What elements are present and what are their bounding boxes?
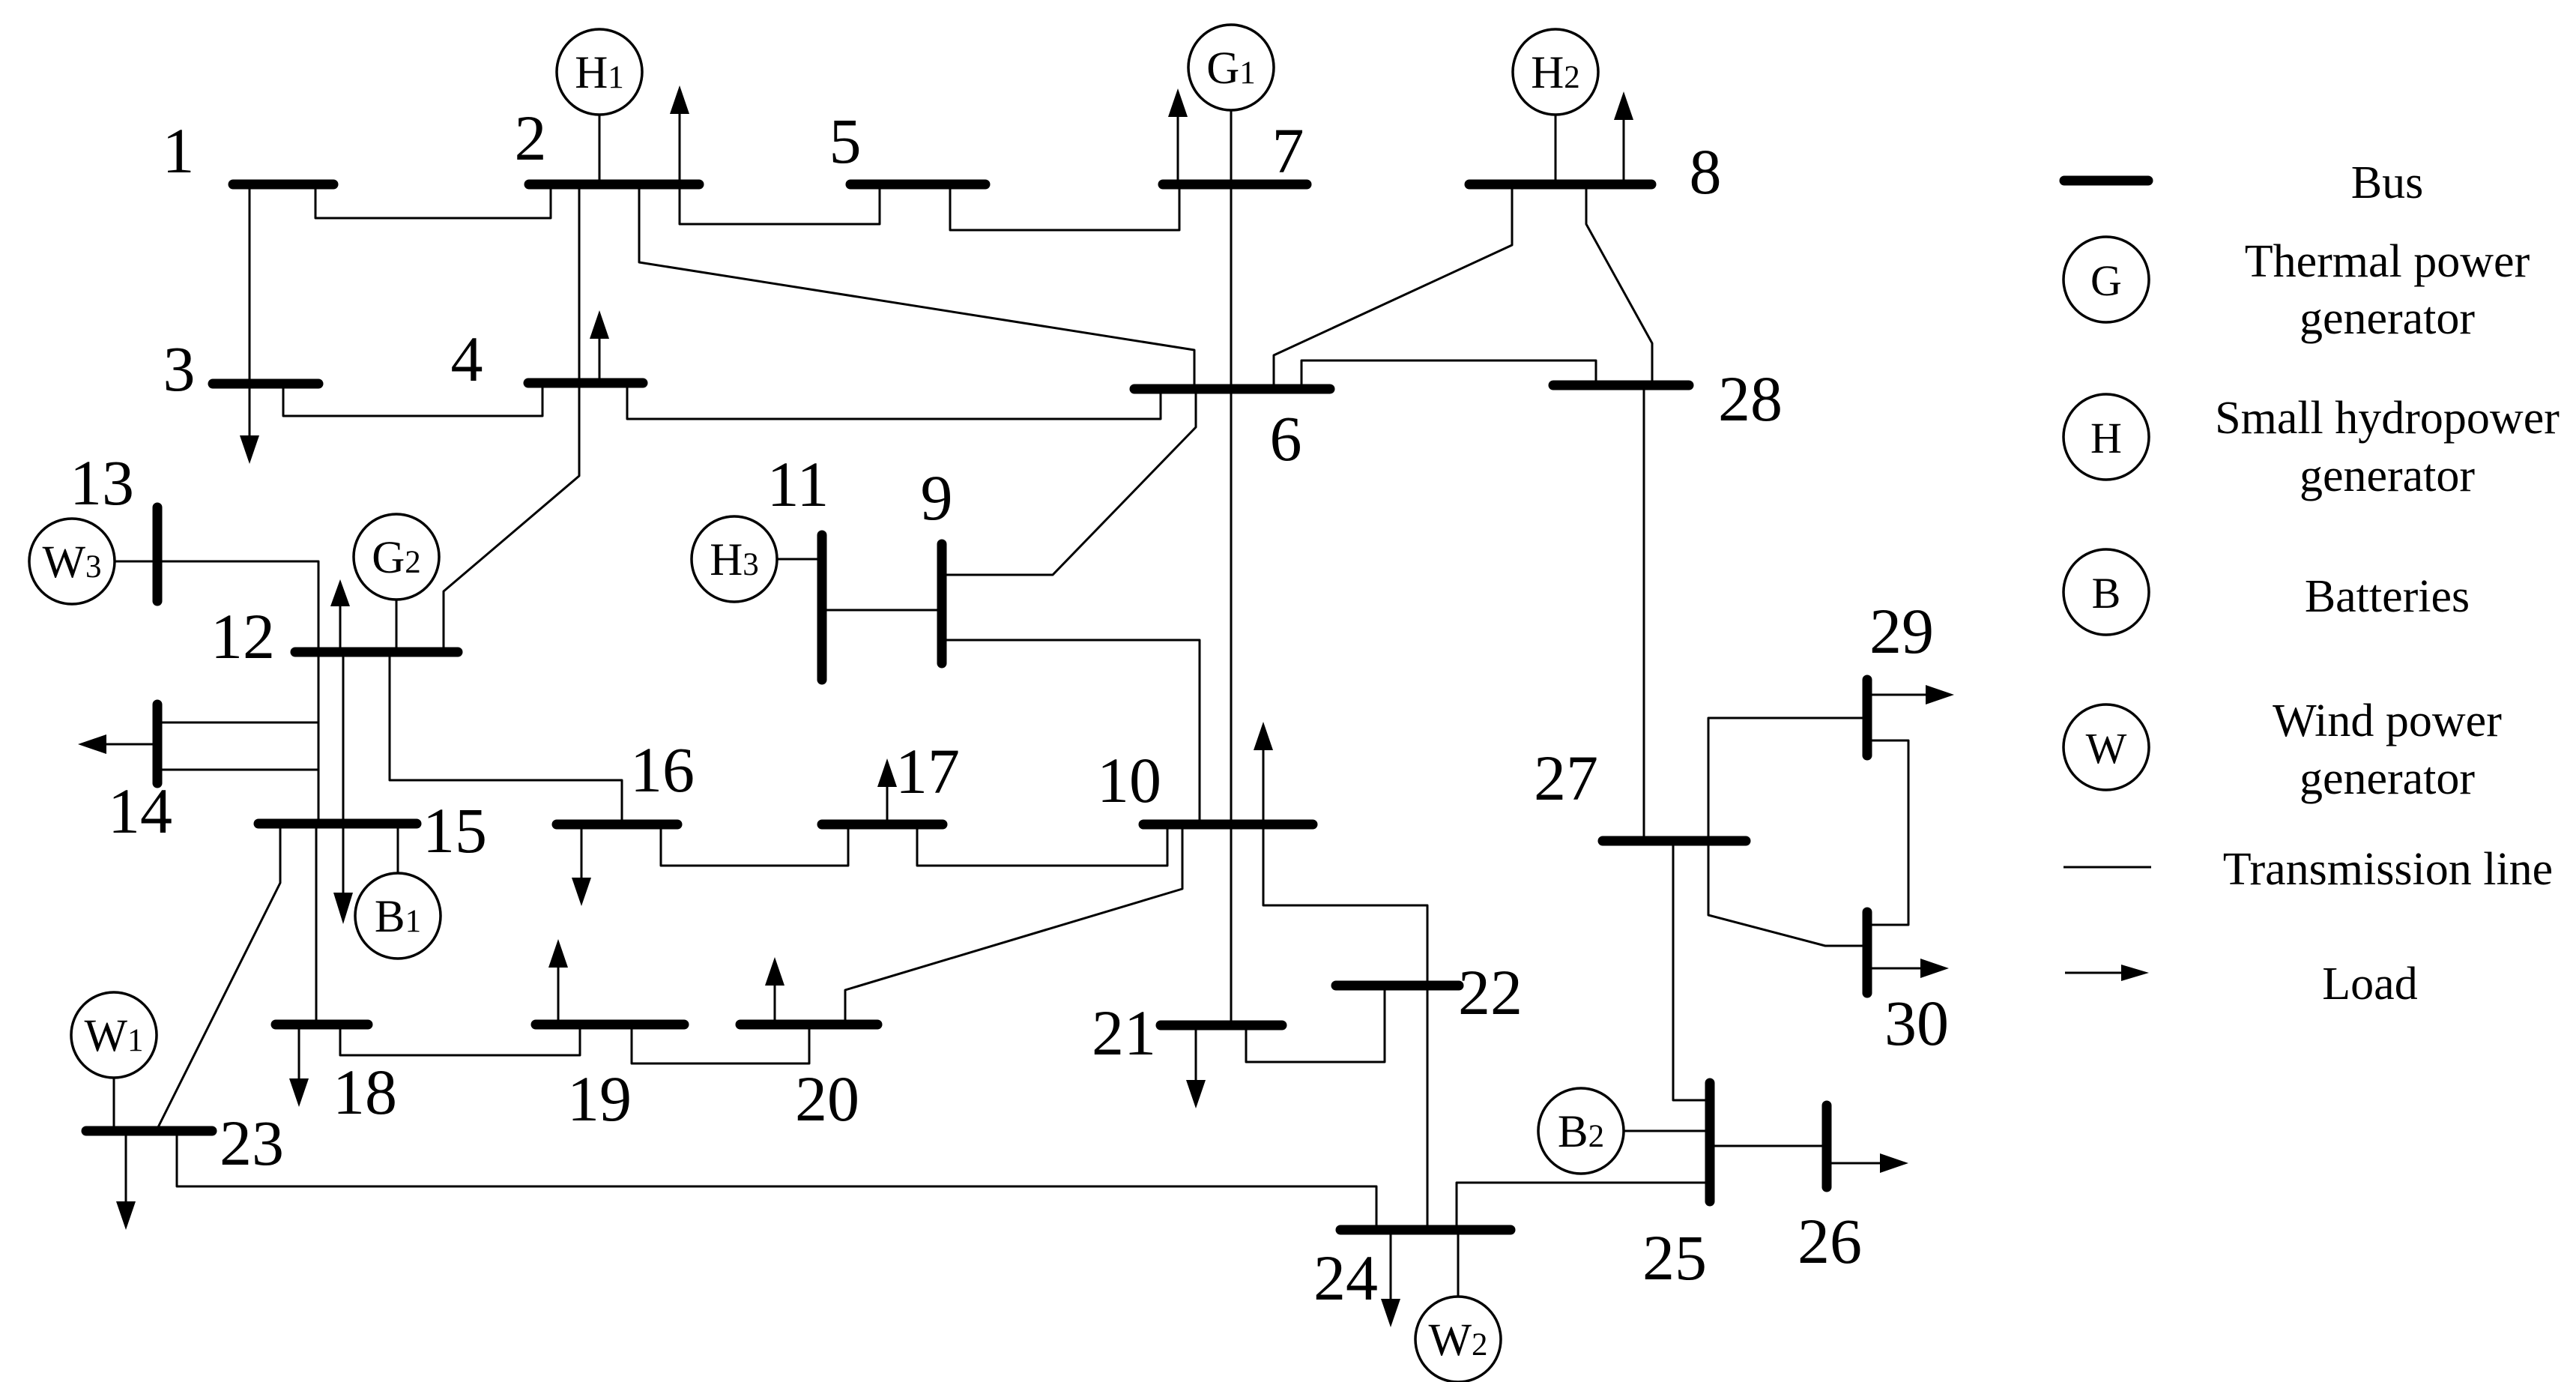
svg-text:Bus: Bus <box>2351 157 2423 208</box>
bus 30 <box>1863 912 1872 993</box>
load arrow at bus 21 (down) <box>1186 1028 1206 1108</box>
svg-text:4: 4 <box>451 323 483 395</box>
svg-text:15: 15 <box>423 794 487 866</box>
wire G2-bus12 <box>396 600 398 649</box>
bus 23 <box>86 1126 212 1136</box>
svg-text:7: 7 <box>1272 115 1304 187</box>
svg-text:B: B <box>2092 569 2121 618</box>
wire bus6-bus9 <box>942 392 1196 575</box>
wind power generator W3 at bus 13 <box>29 519 115 604</box>
wire bus4-bus12 <box>444 386 579 649</box>
wind power generator W1 at bus 23 <box>71 992 157 1078</box>
svg-text:8: 8 <box>1690 136 1722 208</box>
load arrow at bus 7 (up) <box>1168 88 1188 181</box>
bus 29 <box>1863 680 1872 755</box>
bus 5 <box>850 180 985 190</box>
svg-text:10: 10 <box>1097 744 1161 816</box>
svg-text:11: 11 <box>767 448 829 520</box>
legend batteries symbol B <box>2063 549 2149 635</box>
wire bus5-bus7 <box>950 189 1179 230</box>
svg-text:20: 20 <box>795 1063 859 1135</box>
load arrow at bus 18 (down) <box>289 1028 309 1107</box>
legend wind power symbol W <box>2063 704 2149 790</box>
load arrow at bus 12 (up) <box>330 579 350 649</box>
legend label Wind power generator <box>2273 695 2502 804</box>
wire bus19-bus20 <box>632 1028 809 1063</box>
svg-text:23: 23 <box>220 1107 284 1179</box>
svg-text:generator: generator <box>2300 753 2475 804</box>
svg-text:17: 17 <box>895 735 960 807</box>
wire bus29-bus30 <box>1871 740 1908 925</box>
bus 26 <box>1822 1105 1832 1187</box>
svg-text:14: 14 <box>108 775 172 847</box>
bus 19 <box>536 1020 684 1030</box>
svg-text:Small hydropower: Small hydropower <box>2215 393 2560 444</box>
bus 15 <box>258 819 417 829</box>
svg-text:6: 6 <box>1270 402 1302 474</box>
svg-text:19: 19 <box>567 1063 632 1135</box>
wire bus27-bus30 <box>1708 844 1863 946</box>
load arrow at bus 20 (up) <box>765 957 784 1022</box>
svg-text:Batteries: Batteries <box>2305 571 2470 622</box>
wire bus27-bus25 <box>1673 844 1706 1100</box>
bus 3 <box>213 379 318 389</box>
svg-text:12: 12 <box>211 600 275 672</box>
wire B2-bus25 <box>1624 1130 1706 1132</box>
small hydropower generator H1 at bus 2 <box>557 29 642 115</box>
load arrow at bus 19 (up) <box>548 939 568 1022</box>
svg-text:Load: Load <box>2322 959 2417 1010</box>
load arrow at bus 4 (up) <box>590 310 609 380</box>
wire bus2-bus5 <box>680 189 880 224</box>
svg-text:28: 28 <box>1718 363 1783 435</box>
wire H3-bus11 <box>777 558 819 561</box>
bus 13 <box>153 507 163 601</box>
svg-text:2: 2 <box>515 102 547 174</box>
svg-text:1: 1 <box>163 115 195 187</box>
svg-text:5: 5 <box>829 105 862 177</box>
legend bus symbol <box>2064 176 2148 186</box>
battery B2 at bus 25 <box>1538 1088 1624 1174</box>
svg-text:25: 25 <box>1642 1222 1707 1294</box>
load arrow at bus 2 (up) <box>670 85 689 181</box>
wire junction 12-14-15 vertical <box>318 722 320 770</box>
wire bus15-bus23 <box>158 827 280 1127</box>
wire bus1-bus2 <box>315 189 551 218</box>
wire bus18-bus19 <box>340 1028 580 1055</box>
bus 7 <box>1163 180 1307 190</box>
bus 16 <box>557 820 677 830</box>
wire bus10-bus22-bus24 <box>1263 827 1427 1225</box>
wire bus8-bus28 <box>1586 189 1652 383</box>
wire bus2-bus6 <box>639 189 1194 387</box>
wire bus21-bus22 <box>1246 989 1385 1062</box>
bus 10 <box>1143 820 1313 830</box>
bus 9 <box>937 544 947 663</box>
bus 2 <box>529 180 699 190</box>
svg-text:18: 18 <box>333 1056 397 1128</box>
svg-text:30: 30 <box>1884 987 1949 1059</box>
wind power generator W2 at bus 24 <box>1415 1297 1501 1382</box>
load arrow at bus 30 (right) <box>1871 959 1949 978</box>
wire bus12-bus14 <box>159 655 318 722</box>
svg-text:generator: generator <box>2300 450 2475 501</box>
wire bus4-bus6 <box>627 386 1161 419</box>
wire bus16-bus17 <box>661 827 848 866</box>
thermal power generator G2 at bus 12 <box>354 514 439 600</box>
svg-text:22: 22 <box>1458 956 1523 1028</box>
load arrow at bus 14 (left) <box>78 734 153 754</box>
wire bus11-bus9 <box>822 609 942 612</box>
legend small hydropower symbol H <box>2063 394 2149 480</box>
bus 11 <box>817 535 827 680</box>
wire G1 stem through bus7 bus6 bus10 to bus21 <box>1230 110 1233 1022</box>
legend load symbol arrow <box>2065 965 2149 981</box>
bus 27 <box>1603 836 1746 846</box>
bus 24 <box>1340 1225 1511 1235</box>
svg-text:27: 27 <box>1534 742 1598 814</box>
load arrow at bus 26 (right) <box>1830 1153 1908 1173</box>
legend label Thermal power generator <box>2245 236 2530 344</box>
bus 8 <box>1469 180 1651 190</box>
wire bus6-bus28 <box>1301 360 1596 387</box>
wire bus8-bus6 <box>1274 189 1512 387</box>
wire bus1-bus3 <box>249 189 251 381</box>
svg-text:16: 16 <box>630 734 695 806</box>
wire bus24-bus25 <box>1457 1183 1707 1227</box>
bus 17 <box>822 820 943 830</box>
battery B1 at bus 15 <box>355 873 441 959</box>
bus 21 <box>1161 1021 1282 1031</box>
wire bus10-bus20 <box>845 827 1182 1022</box>
svg-text:generator: generator <box>2300 293 2475 344</box>
load arrow at bus 24 (down) <box>1381 1233 1400 1327</box>
wire bus28-bus27 <box>1643 388 1645 838</box>
bus 28 <box>1553 381 1689 390</box>
load arrow at bus 10 (up) <box>1254 722 1273 821</box>
load arrow at bus 12/15 (down long) <box>333 655 353 924</box>
wire bus25-bus26 <box>1714 1145 1823 1147</box>
load arrow at bus 3 (down) <box>240 386 259 464</box>
load arrow at bus 17 (up) <box>877 758 897 821</box>
wire bus14-bus15 <box>159 770 318 821</box>
wire bus9-bus10 <box>942 640 1200 821</box>
thermal power generator G1 at bus 7 <box>1188 25 1274 110</box>
wire W2-bus24 <box>1457 1233 1460 1297</box>
small hydropower generator H3 at bus 11 <box>692 516 777 602</box>
bus 22 <box>1336 981 1459 991</box>
wire bus23-bus24 <box>177 1134 1376 1225</box>
wire W3-bus13 <box>115 561 154 563</box>
bus 20 <box>740 1020 877 1030</box>
wire W1-bus23 <box>113 1078 115 1128</box>
wire bus2-bus4 <box>578 189 581 381</box>
wire H2-bus8 <box>1555 115 1557 181</box>
load arrow at bus 29 (right) <box>1871 685 1954 704</box>
bus 25 <box>1705 1083 1715 1201</box>
wire B1-bus15 <box>397 827 399 873</box>
legend thermal generator symbol G <box>2063 237 2149 322</box>
bus 4 <box>528 378 643 388</box>
bus 18 <box>276 1020 368 1030</box>
wire bus12-bus16 <box>390 655 622 821</box>
svg-text:W: W <box>2086 724 2127 773</box>
svg-text:3: 3 <box>163 333 196 405</box>
load arrow at bus 8 (up) <box>1614 91 1633 181</box>
svg-text:Thermal power: Thermal power <box>2245 236 2530 287</box>
wire bus3-bus4 <box>283 386 542 416</box>
svg-text:Wind power: Wind power <box>2273 695 2502 746</box>
bus 12 <box>295 648 458 657</box>
legend transmission line symbol <box>2063 866 2151 869</box>
svg-text:13: 13 <box>70 447 134 519</box>
svg-text:21: 21 <box>1092 997 1156 1069</box>
bus 14 <box>153 704 163 783</box>
svg-text:29: 29 <box>1869 595 1934 667</box>
small hydropower generator H2 at bus 8 <box>1513 29 1598 115</box>
svg-text:26: 26 <box>1798 1205 1862 1277</box>
load arrow at bus 23 (down) <box>116 1134 136 1230</box>
svg-text:24: 24 <box>1313 1242 1378 1314</box>
legend label Small hydropower generator <box>2215 393 2560 501</box>
svg-text:9: 9 <box>921 462 953 534</box>
wire bus15-bus18 <box>315 827 318 1022</box>
wire bus17-bus10 <box>917 827 1167 866</box>
wire bus13-bus12 <box>159 561 318 649</box>
load arrow at bus 16 (down) <box>572 827 591 906</box>
wire bus27-bus29 <box>1708 718 1863 838</box>
svg-text:Transmission line: Transmission line <box>2223 844 2553 895</box>
wire H1-bus2 <box>599 115 601 181</box>
svg-text:H: H <box>2090 414 2122 462</box>
bus 6 <box>1134 384 1330 394</box>
bus 1 <box>233 180 333 190</box>
svg-text:G: G <box>2090 256 2122 305</box>
